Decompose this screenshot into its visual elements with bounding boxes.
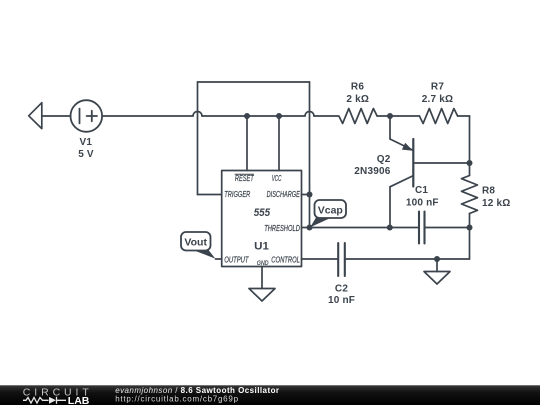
ground G1 — [249, 267, 275, 302]
svg-text:Vcap: Vcap — [318, 204, 343, 216]
junction R8-C1 — [467, 225, 473, 231]
pin TRIGGER — [224, 190, 250, 199]
footer title — [115, 386, 279, 395]
svg-text:2.7 kΩ: 2.7 kΩ — [422, 94, 453, 105]
node Vout flag — [181, 232, 215, 259]
label C1 — [406, 185, 439, 208]
junction collector-threshold — [387, 225, 393, 231]
label C2 — [328, 284, 355, 306]
svg-text:U1: U1 — [254, 240, 269, 252]
svg-text:2N3906: 2N3906 — [354, 166, 390, 177]
IC U1 555 timer box — [222, 171, 302, 267]
node Vcap text — [318, 204, 343, 216]
junction vcc-rail — [276, 113, 282, 119]
wire vcc riser — [278, 116, 280, 171]
svg-text:GND: GND — [257, 260, 269, 267]
label Q2 — [354, 154, 390, 177]
footer bar — [0, 385, 540, 405]
junction reset-rail — [244, 113, 250, 119]
svg-text:THRESHOLD: THRESHOLD — [264, 224, 300, 233]
svg-text:TRIGGER: TRIGGER — [224, 190, 250, 199]
svg-text:Vout: Vout — [184, 237, 207, 249]
capacitor C1 — [419, 212, 425, 244]
wire — [377, 115, 419, 117]
node Vcap flag — [310, 200, 346, 227]
label U1 — [254, 240, 269, 252]
resistor R6 — [339, 109, 377, 124]
svg-text:LAB: LAB — [68, 395, 90, 405]
label 555 — [254, 207, 271, 219]
svg-text:12 kΩ: 12 kΩ — [482, 198, 510, 209]
footer logo CIRCUIT — [23, 387, 93, 399]
svg-text:RESET: RESET — [235, 174, 255, 183]
wire trigger riser — [197, 82, 199, 195]
svg-text:10 nF: 10 nF — [328, 295, 355, 306]
wire right rail — [469, 116, 471, 259]
resistor R7 — [419, 109, 457, 124]
terminal arrow A1 — [29, 103, 42, 129]
svg-text:R6: R6 — [351, 81, 364, 92]
ground G2 — [424, 259, 450, 284]
junction emitter-rail — [387, 113, 393, 119]
label R7 — [422, 81, 453, 105]
svg-text:5 V: 5 V — [78, 149, 94, 160]
wire control — [302, 258, 470, 260]
pin OUTPUT — [224, 256, 249, 265]
junction control-ground — [434, 256, 440, 262]
svg-text:C1: C1 — [415, 185, 428, 196]
wire top link — [198, 81, 310, 83]
svg-text:Q2: Q2 — [377, 154, 391, 165]
label R6 — [346, 81, 369, 105]
pin VCC — [272, 174, 282, 183]
label R8 — [482, 185, 510, 209]
svg-text:2 kΩ: 2 kΩ — [346, 94, 369, 105]
capacitor C2 — [338, 243, 345, 276]
junction discharge — [307, 192, 313, 198]
svg-text:R7: R7 — [431, 81, 444, 92]
svg-text:C2: C2 — [335, 284, 348, 295]
svg-text:http://circuitlab.com/cb7g69p: http://circuitlab.com/cb7g69p — [115, 395, 239, 404]
transistor Q2 — [390, 116, 470, 228]
resistor R8 — [462, 176, 478, 214]
svg-text:100 nF: 100 nF — [406, 197, 439, 208]
svg-text:V1: V1 — [79, 137, 92, 148]
footer url — [115, 395, 239, 404]
svg-text:VCC: VCC — [272, 174, 282, 183]
pin DISCHARGE — [267, 190, 301, 199]
svg-text:OUTPUT: OUTPUT — [224, 256, 249, 265]
wire — [458, 115, 470, 117]
node Vout text — [184, 237, 207, 249]
voltage source V1 — [71, 100, 103, 132]
footer logo LAB — [23, 395, 90, 405]
junction threshold — [307, 225, 313, 231]
svg-text:DISCHARGE: DISCHARGE — [267, 190, 301, 199]
wire main top — [102, 112, 338, 117]
junction base-R8 — [467, 160, 473, 166]
label V1 — [78, 137, 94, 160]
pin THRESHOLD — [264, 224, 300, 233]
svg-text:555: 555 — [254, 207, 271, 219]
pin CONTROL — [271, 256, 300, 265]
wire trigger stub — [198, 194, 222, 196]
pin RESET — [235, 174, 255, 183]
svg-text:CONTROL: CONTROL — [271, 256, 300, 265]
wire output stub — [216, 258, 222, 260]
wire discharge stub — [302, 194, 310, 196]
wire threshold — [302, 227, 470, 229]
wire reset riser — [246, 116, 248, 171]
svg-text:R8: R8 — [482, 185, 495, 196]
wire discharge riser — [309, 82, 311, 228]
wire — [42, 115, 71, 117]
pin GND — [257, 260, 269, 267]
svg-text:evanmjohnson / 8.6 Sawtooth Oc: evanmjohnson / 8.6 Sawtooth Ocsillator — [115, 386, 279, 395]
